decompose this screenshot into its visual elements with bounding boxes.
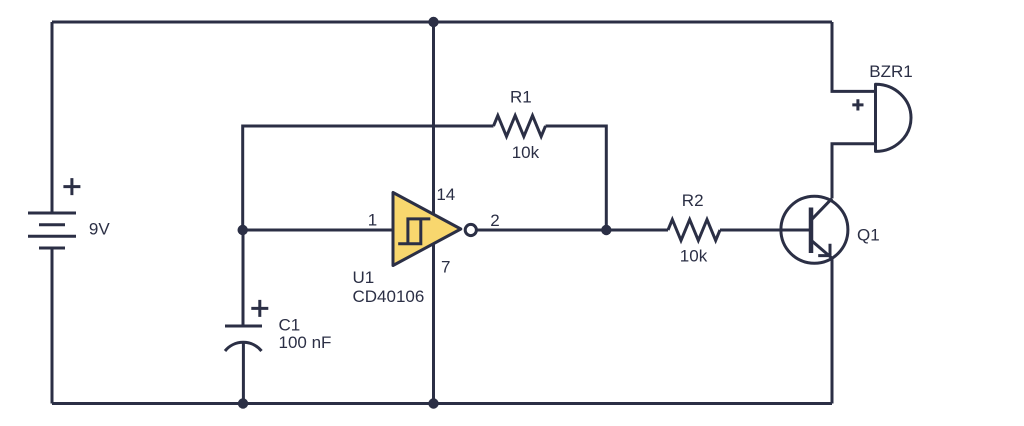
svg-text:Q1: Q1 [857, 226, 880, 245]
svg-text:R1: R1 [510, 88, 532, 107]
svg-text:C1: C1 [279, 316, 301, 335]
svg-text:R2: R2 [682, 191, 704, 210]
svg-text:BZR1: BZR1 [869, 62, 912, 81]
svg-text:U1: U1 [353, 268, 375, 287]
svg-text:10k: 10k [512, 143, 540, 162]
svg-text:10k: 10k [680, 247, 708, 266]
svg-text:CD40106: CD40106 [353, 287, 425, 306]
svg-text:14: 14 [436, 185, 455, 204]
svg-text:2: 2 [490, 211, 499, 230]
svg-text:7: 7 [441, 258, 450, 277]
svg-text:100 nF: 100 nF [279, 333, 332, 352]
svg-text:9V: 9V [89, 220, 110, 239]
svg-text:1: 1 [368, 210, 377, 229]
